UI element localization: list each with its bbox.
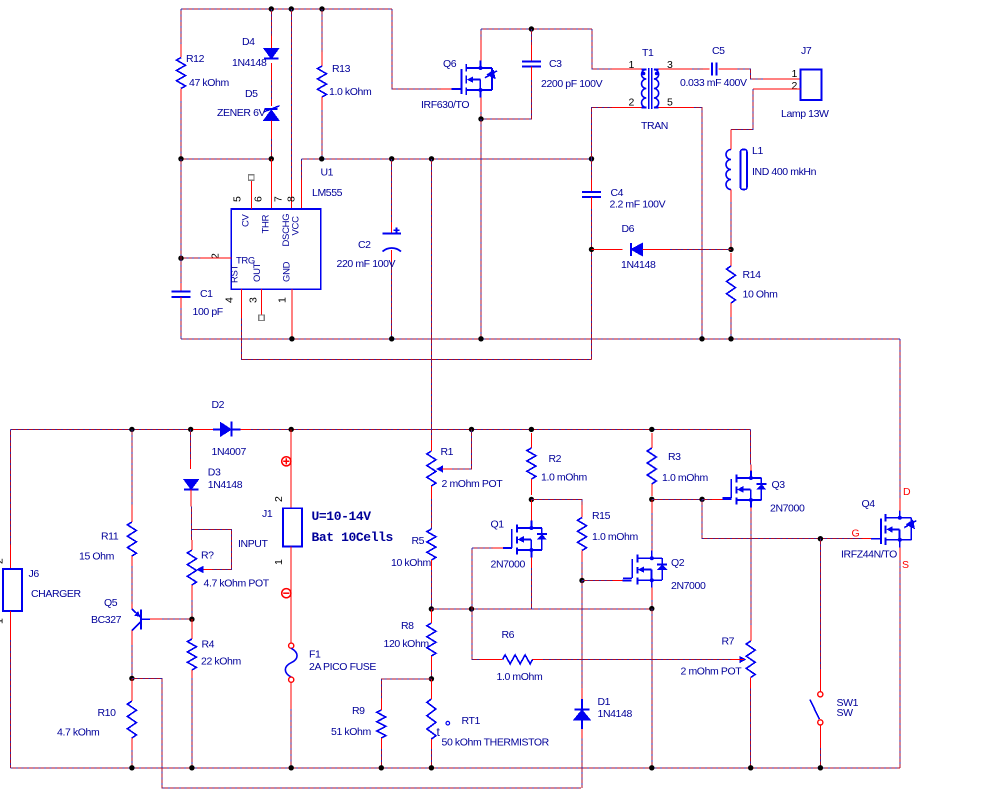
svg-text:R?: R?	[201, 550, 214, 562]
wire bottom rail	[10, 767, 900, 769]
wire Q6 source to node	[480, 112, 482, 119]
wire D1 bottom	[581, 738, 583, 788]
wire J6 top	[9, 429, 11, 545]
wire R9 branch	[381, 679, 431, 699]
wire C5 left	[692, 68, 703, 70]
lead C1 top	[180, 283, 182, 291]
lead C1 bottom	[180, 297, 182, 308]
lead D5 cathode	[270, 99, 272, 106]
svg-text:50 kOhm THERMISTOR: 50 kOhm THERMISTOR	[442, 737, 550, 749]
svg-text:100 pF: 100 pF	[193, 306, 223, 318]
lead R1 bottom	[430, 486, 432, 499]
pot wiper arrow R1	[436, 465, 443, 472]
lead pin4 RST	[240, 289, 242, 318]
wire SW1 bottom	[819, 748, 821, 768]
junction GND / pin1	[289, 336, 294, 341]
lead Q5 base	[150, 618, 162, 620]
lead pin6	[270, 159, 272, 209]
svg-text:CV: CV	[240, 213, 251, 227]
lead R8 top	[430, 609, 432, 623]
svg-text:2: 2	[629, 97, 635, 109]
lead R8 bottom	[430, 656, 432, 670]
wire R10 bottom	[131, 750, 133, 768]
wire Q6 drain top	[480, 29, 482, 40]
svg-text:22 kOhm: 22 kOhm	[201, 656, 241, 668]
resistor body R13	[318, 66, 327, 97]
lead Q2 source	[651, 588, 653, 600]
svg-text:Q4: Q4	[862, 498, 876, 510]
pot wiper arrow R?	[196, 566, 203, 573]
wire D4 top	[270, 9, 272, 36]
svg-text:R8: R8	[401, 620, 414, 632]
junction Q5 col / R10	[129, 676, 134, 681]
wire R2 to R15	[531, 500, 582, 506]
lead R14 top	[730, 253, 732, 266]
lead R5 bottom	[430, 560, 432, 570]
wire Q3 drain up	[749, 429, 751, 464]
junction Q2 source / net609	[649, 606, 654, 611]
junction GND / R14	[728, 336, 733, 341]
junction rail / R2	[529, 427, 534, 432]
wire Q2 source down	[651, 600, 653, 609]
diode body D6 1N4148	[631, 243, 642, 256]
junction VCC rail / feed	[429, 156, 434, 161]
lead R4 top	[191, 619, 193, 639]
svg-text:L1: L1	[752, 145, 763, 157]
svg-text:Bat 10Cells: Bat 10Cells	[312, 530, 394, 545]
lead D6 cathode lead	[592, 248, 623, 250]
wire Q1 gate column	[471, 548, 473, 659]
lead R7 bottom	[750, 678, 752, 689]
wire pin7 riser	[290, 9, 292, 180]
junction C4 / D6 node	[589, 247, 594, 252]
svg-text:10 Ohm: 10 Ohm	[743, 289, 779, 301]
lead Q5 emitter	[131, 604, 133, 609]
svg-text:INPUT: INPUT	[238, 538, 268, 550]
lead pin1 GND	[291, 289, 293, 339]
junction btm / R4	[189, 765, 194, 770]
junction btm / F1	[289, 765, 294, 770]
transistor body Q3 2N7000	[722, 471, 761, 508]
svg-text:C2: C2	[358, 239, 371, 251]
lead Q6 source	[480, 98, 482, 113]
lead D2 cathode	[241, 428, 252, 430]
transistor body Q1 2N7000	[503, 521, 542, 558]
svg-text:U=10-14V: U=10-14V	[312, 509, 372, 524]
wire Q1 gate stub	[503, 547, 512, 549]
junction rail / R11	[129, 427, 134, 432]
svg-text:R4: R4	[202, 639, 215, 651]
lead D1 anode	[581, 729, 583, 738]
junction TRG / C1 col	[178, 256, 183, 261]
capacitor body C4	[582, 192, 601, 197]
svg-text:R9: R9	[352, 705, 365, 717]
wire C2 top	[391, 159, 393, 222]
resistor body R9	[377, 710, 386, 738]
lead Q6 drain	[480, 40, 482, 61]
svg-text:R14: R14	[743, 269, 762, 281]
svg-text:1N4148: 1N4148	[598, 708, 633, 720]
svg-text:10 kOhm: 10 kOhm	[391, 557, 431, 569]
wire feedback loop	[132, 678, 581, 788]
wire D5 bottom	[270, 139, 272, 159]
wire R4 bottom	[191, 678, 193, 768]
power flag plus	[282, 457, 291, 466]
lead R14 bottom	[730, 303, 732, 317]
svg-text:R1: R1	[441, 446, 454, 458]
lead R13 top	[321, 52, 323, 66]
lead Q1 drain	[530, 500, 532, 521]
svg-text:D5: D5	[245, 88, 258, 100]
resistor body R6	[503, 655, 533, 664]
lead R7 top	[750, 625, 752, 641]
svg-text:D1: D1	[598, 696, 611, 708]
junction top rail / D4	[269, 6, 274, 11]
inductor L1 body	[726, 150, 747, 190]
svg-text:D: D	[903, 486, 911, 498]
lead R15 top	[581, 505, 583, 518]
wire Rpot to base node	[191, 600, 193, 619]
junction rail / R3	[649, 427, 654, 432]
svg-text:120 kOhm: 120 kOhm	[384, 638, 430, 650]
svg-text:CHARGER: CHARGER	[31, 588, 82, 600]
svg-text:J6: J6	[29, 568, 40, 580]
junction VCC rail / R12	[178, 156, 183, 161]
wire R15 bottom	[581, 562, 583, 581]
resistor body RT1	[427, 699, 436, 739]
lead R6 right	[533, 658, 544, 660]
resistor body R15	[578, 518, 587, 551]
wire R6 to R7	[543, 658, 731, 660]
svg-text:R12: R12	[186, 53, 205, 65]
diode body D2 1N4007	[213, 421, 241, 436]
svg-text:15 Ohm: 15 Ohm	[79, 551, 115, 563]
lead L1 top	[730, 130, 732, 150]
wire feed 555 to R1	[431, 159, 433, 440]
svg-text:2A PICO FUSE: 2A PICO FUSE	[309, 661, 376, 673]
capacitor body C1	[172, 291, 191, 297]
svg-text:VCC: VCC	[290, 216, 301, 236]
junction R5 / R8 node	[429, 606, 434, 611]
diode body D4 1N4148	[264, 49, 279, 59]
resistor body R? pot	[187, 550, 196, 585]
capacitor body C5	[712, 63, 717, 76]
junction btm / R10	[129, 765, 134, 770]
svg-text:R5: R5	[412, 535, 425, 547]
svg-text:2: 2	[0, 558, 6, 564]
wire GND rail	[181, 338, 900, 340]
svg-text:1.0 mOhm: 1.0 mOhm	[592, 531, 638, 543]
lead J6 pin2	[9, 545, 11, 569]
wire C1 bottom	[180, 308, 182, 339]
lead D2 anode	[193, 428, 213, 430]
junction btm / R9	[379, 765, 384, 770]
wire Q3 gate stub	[722, 498, 731, 500]
lead J1 wire bottom	[290, 547, 292, 644]
svg-text:RT1: RT1	[462, 715, 481, 727]
wire R1 wiper up	[452, 429, 472, 469]
junction rail / J1	[289, 427, 294, 432]
wire Q6 gate	[392, 9, 441, 89]
switch SW1 body	[818, 692, 823, 697]
svg-text:Lamp 13W: Lamp 13W	[781, 108, 829, 120]
wire Q4 gate net	[702, 499, 862, 538]
wire J6 bottom	[9, 640, 11, 768]
lead Q1 gate	[493, 547, 503, 549]
transistor body Q6 IRF630	[452, 61, 492, 98]
lead C5 left	[703, 68, 710, 70]
lead R9 top	[380, 698, 382, 710]
lead C3 bottom	[530, 67, 532, 81]
svg-text:U1: U1	[321, 167, 334, 179]
resistor body R11	[127, 522, 136, 556]
lead Q3 gate	[712, 498, 722, 500]
wire F1 to rail	[290, 709, 292, 768]
svg-text:R3: R3	[668, 451, 681, 463]
transformer T1 body	[642, 68, 659, 109]
wire pin5 down	[694, 108, 702, 339]
lead R2 bottom	[530, 479, 532, 495]
svg-text:T1: T1	[642, 47, 654, 59]
wire R6 left riser	[472, 658, 481, 660]
junction top wire / C3	[529, 26, 534, 31]
svg-text:J1: J1	[262, 508, 273, 520]
svg-text:5: 5	[667, 97, 673, 109]
wire R3 to Q3 gate	[652, 498, 702, 500]
svg-text:D4: D4	[242, 36, 255, 48]
junction R3 / gates node	[649, 497, 654, 502]
junction R15 / Q2 gate / D1	[579, 578, 584, 583]
connector J1 body	[283, 508, 302, 546]
lead D4 anode	[270, 36, 272, 48]
no-connect pin5	[249, 175, 255, 181]
lead pin3 OUT	[261, 289, 263, 314]
svg-text:1N4148: 1N4148	[208, 479, 243, 491]
wire VCC rail left	[181, 158, 271, 160]
wire C5 to J7	[738, 69, 763, 79]
junction top rail / R13	[319, 6, 324, 11]
wire battery rail	[10, 428, 750, 430]
svg-text:2200 pF 100V: 2200 pF 100V	[541, 78, 603, 90]
transistor body Q4 IRFZ44N	[871, 510, 911, 547]
lead R13 bottom	[321, 97, 323, 110]
transistor body Q5 BC327	[132, 609, 141, 631]
lead T1 pin3	[659, 68, 692, 70]
wire R13 top	[321, 9, 323, 52]
wire pin8 riser	[301, 159, 303, 180]
resistor body R12	[177, 58, 186, 89]
lead R4 bottom	[191, 670, 193, 678]
svg-text:2N7000: 2N7000	[671, 580, 706, 592]
svg-text:C4: C4	[611, 187, 624, 199]
resistor body R3	[647, 448, 656, 484]
junction VCC rail / R13	[319, 156, 324, 161]
wire R1 to R5	[430, 499, 432, 529]
junction VCC rail / C4-T1	[589, 156, 594, 161]
wire C3 top	[530, 29, 532, 45]
lead RT1 top	[430, 679, 432, 699]
wire R14 bottom	[730, 317, 732, 339]
lead J7 pin1	[763, 78, 801, 80]
svg-text:1N4148: 1N4148	[621, 259, 656, 271]
svg-text:ZENER 6V: ZENER 6V	[217, 107, 266, 119]
lead D4-D5 link	[270, 63, 272, 80]
svg-text:220 mF 100V: 220 mF 100V	[337, 258, 396, 270]
resistor body R7 pot	[746, 641, 755, 678]
lead RT1 bottom	[430, 739, 432, 749]
wire Q5 base to R4	[162, 618, 192, 620]
lead pin8	[301, 180, 303, 209]
lead R11 bottom	[131, 556, 133, 566]
svg-text:7: 7	[273, 196, 285, 202]
wire Rpot loop	[192, 529, 232, 569]
svg-text:2 mOhm POT: 2 mOhm POT	[681, 666, 743, 678]
wire L1 to node	[730, 202, 732, 249]
svg-text:4.7 kOhm: 4.7 kOhm	[57, 727, 100, 739]
svg-text:J7: J7	[801, 45, 812, 57]
lead C2 top	[391, 222, 393, 234]
junction R? / Q5 base / R4	[189, 617, 194, 622]
lead Q4 drain	[899, 499, 901, 512]
svg-text:OUT: OUT	[252, 262, 263, 282]
junction GND / C2	[389, 336, 394, 341]
svg-text:4.7 kOhm POT: 4.7 kOhm POT	[204, 578, 270, 590]
transistor body Q2 2N7000	[623, 551, 662, 588]
resistor body R14	[727, 266, 736, 303]
wire SW1 top	[819, 539, 821, 669]
svg-text:R11: R11	[101, 531, 119, 543]
diode body D5 zener	[264, 106, 280, 121]
wire R9 bottom	[380, 749, 382, 768]
lead SW1 lead top	[819, 669, 821, 691]
svg-text:F1: F1	[309, 649, 321, 661]
wire C3 bottom	[481, 80, 531, 119]
svg-text:1: 1	[792, 68, 798, 80]
lead R7 wiper	[731, 659, 744, 661]
junction Q3 gate / Q4 gate node	[699, 497, 704, 502]
lead R15 bottom	[581, 551, 583, 563]
wire Q6 source down	[480, 119, 482, 339]
wire C2 bottom	[391, 262, 393, 339]
svg-text:1.0 kOhm: 1.0 kOhm	[329, 86, 372, 98]
wire RST down	[241, 319, 591, 360]
junction rail / D3	[188, 427, 193, 432]
lead R10 top	[131, 678, 133, 701]
svg-text:2N7000: 2N7000	[491, 559, 526, 571]
resistor body R5	[427, 529, 436, 560]
svg-text:1: 1	[277, 297, 289, 303]
wire D3 to Rpot	[191, 507, 193, 541]
svg-text:0.033 mF 400V: 0.033 mF 400V	[680, 77, 747, 89]
lead Q6 gate	[441, 88, 452, 90]
svg-text:Q1: Q1	[491, 519, 505, 531]
capacitor body C3	[522, 62, 541, 67]
pot wiper arrow R7	[739, 656, 746, 663]
junction GND / pin5 T1	[699, 336, 704, 341]
lead D5 anode	[270, 120, 272, 139]
svg-text:2.2 mF 100V: 2.2 mF 100V	[610, 199, 666, 211]
wire VCC rail right	[302, 158, 592, 160]
lead T1 pin5	[659, 107, 694, 109]
wire T1 pin1	[592, 29, 612, 69]
wire rail to Q4 drain	[899, 339, 901, 499]
lead Q2 drain upper	[651, 499, 653, 513]
wire Q1 source down	[530, 568, 532, 609]
no-connect pin3	[259, 315, 265, 321]
wire R7 bottom	[750, 689, 752, 768]
wire Q5 collector down	[131, 645, 133, 678]
wire C1 top	[180, 159, 182, 283]
capacitor body C2 polarized	[383, 234, 402, 252]
lead R1 wiper	[442, 468, 452, 470]
lead C3 top	[530, 45, 532, 62]
svg-text:D6: D6	[622, 223, 635, 235]
connector J6 body	[3, 569, 22, 611]
svg-text:2 mOhm POT: 2 mOhm POT	[442, 478, 504, 490]
junction VCC rail / D5-pin6	[269, 156, 274, 161]
svg-text:IRFZ44N/TO: IRFZ44N/TO	[841, 549, 897, 561]
svg-text:R13: R13	[332, 63, 351, 75]
lead L1 bottom	[730, 190, 732, 203]
lead Rpot top	[191, 540, 193, 550]
svg-text:1: 1	[629, 59, 635, 71]
lead R6 left	[480, 658, 503, 660]
svg-text:BC327: BC327	[91, 614, 122, 626]
lead pin7	[290, 180, 292, 209]
lead R9 bottom	[380, 738, 382, 749]
lead J7 pin2	[753, 88, 801, 90]
junction net609 / gate col	[469, 606, 474, 611]
lead SW1 lead bottom	[819, 725, 821, 748]
lead R2 top	[530, 433, 532, 448]
svg-text:IND 400 mkHn: IND 400 mkHn	[752, 166, 817, 178]
svg-text:IRF630/TO: IRF630/TO	[421, 99, 469, 111]
svg-text:2: 2	[792, 80, 798, 92]
lead C4 bottom	[591, 197, 593, 209]
wire D1 top	[581, 581, 583, 688]
resistor body R1 pot	[427, 451, 436, 486]
wire J7 pin2 to L1	[731, 89, 753, 130]
wire C4 top	[591, 159, 593, 180]
resistor body R10	[127, 701, 136, 738]
junction GND / Q6src	[478, 336, 483, 341]
lead Q2 drain lower	[651, 549, 653, 558]
svg-text:3: 3	[248, 297, 260, 303]
wire Q2 gate stub	[623, 580, 632, 582]
thermistor mark circle	[446, 721, 450, 725]
junction Q4 gate / SW1	[818, 536, 823, 541]
svg-text:1: 1	[0, 618, 6, 624]
wire R11 to Q5	[131, 566, 133, 604]
svg-text:1N4148: 1N4148	[232, 57, 267, 69]
svg-text:Q3: Q3	[772, 479, 786, 491]
svg-text:1.0 mOhm: 1.0 mOhm	[662, 472, 708, 484]
lead Q4 gate	[863, 538, 872, 540]
wire Q1 gate wire	[472, 547, 493, 549]
svg-text:THR: THR	[261, 214, 272, 233]
svg-text:Q6: Q6	[443, 58, 457, 70]
wire Q5 base stub	[142, 618, 150, 620]
svg-text:1.0 mOhm: 1.0 mOhm	[541, 472, 587, 484]
lead Rpot bottom	[191, 585, 193, 600]
lead Q4 source	[899, 548, 901, 561]
wire Q3 source down	[750, 512, 752, 625]
wire Q2 source to rail	[651, 609, 653, 768]
lead D3 top	[190, 459, 192, 469]
diode body D3 1N4148	[184, 479, 199, 489]
lead pin5 CV	[250, 181, 252, 210]
svg-text:2N7000: 2N7000	[770, 503, 805, 515]
